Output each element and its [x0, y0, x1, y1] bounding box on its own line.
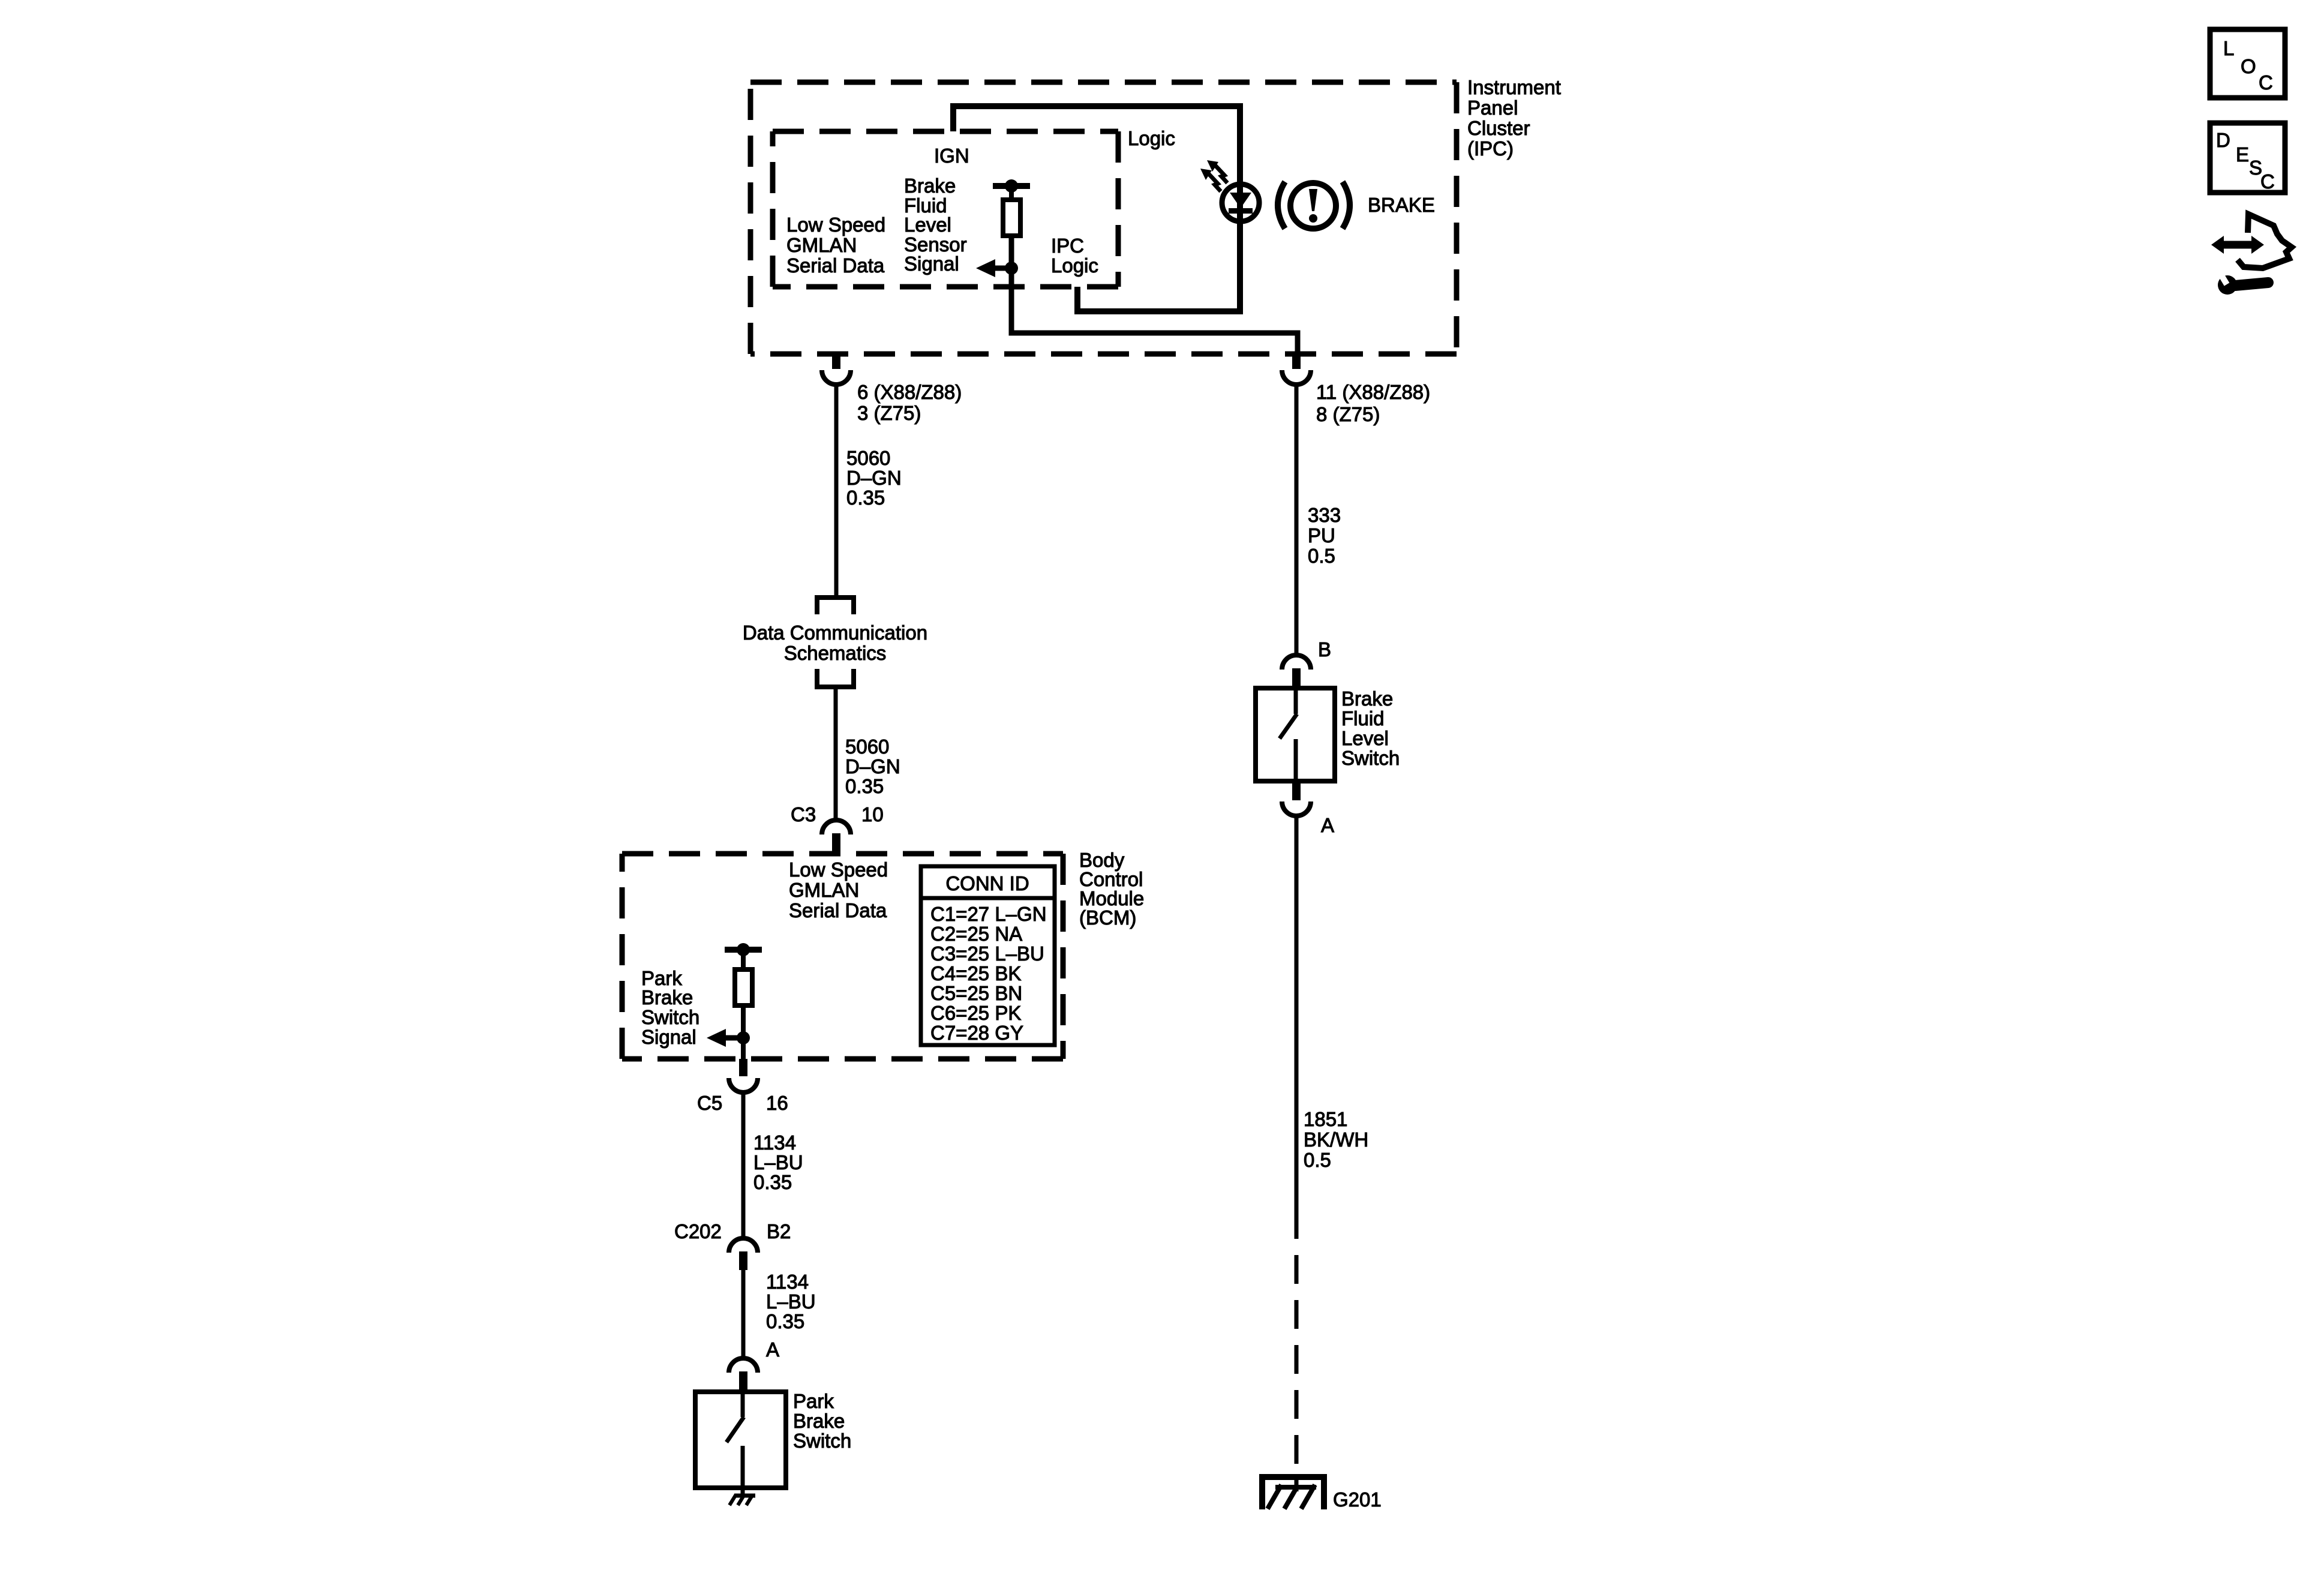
connector: brake fluid level switch pin B [1282, 655, 1311, 688]
label: Low Speed GMLAN Serial Data (IPC) [786, 214, 885, 277]
wire: park brake switch to ground [741, 1488, 745, 1497]
svg-text:L: L [2223, 37, 2234, 59]
label: Park Brake Switch Signal [641, 967, 699, 1048]
value label: 5060 D-GN 0.35 (upper) [846, 447, 902, 509]
svg-text:C1=27 L–GN: C1=27 L–GN [930, 903, 1047, 925]
svg-text:Brake: Brake [793, 1410, 845, 1432]
wire: circuit 1134 lower segment [741, 1270, 746, 1358]
svg-text:Data Communication: Data Communication [743, 622, 927, 644]
value label: 1134 L-BU 0.35 (lower) [766, 1271, 816, 1332]
svg-text:C4=25 BK: C4=25 BK [930, 962, 1021, 984]
node: park brake switch signal junction [737, 1031, 750, 1044]
svg-text:3 (Z75): 3 (Z75) [857, 402, 921, 424]
svg-text:BRAKE: BRAKE [1368, 194, 1435, 216]
svg-text:Signal: Signal [904, 253, 959, 275]
label: G201 [1333, 1488, 1382, 1511]
label: IPC Logic [1051, 235, 1098, 277]
icon text: D E S C [2216, 129, 2275, 193]
svg-text:G201: G201 [1333, 1488, 1382, 1511]
icon: LOC reference box [2210, 29, 2285, 98]
svg-text:1851: 1851 [1304, 1108, 1347, 1130]
svg-text:A: A [766, 1338, 779, 1361]
svg-text:1134: 1134 [753, 1131, 796, 1154]
value label: 1134 L-BU 0.35 (upper) [753, 1131, 803, 1193]
connector: IPC pin 11 (brake fluid level sensor signal) [1282, 355, 1311, 385]
svg-text:L–BU: L–BU [753, 1151, 803, 1173]
svg-text:6 (X88/Z88): 6 (X88/Z88) [857, 381, 962, 403]
label: Logic [1128, 127, 1175, 149]
svg-text:C2=25 NA: C2=25 NA [930, 923, 1022, 945]
svg-text:Level: Level [904, 214, 951, 236]
pin label: B (brake fluid level switch) [1318, 638, 1331, 661]
svg-text:Low Speed: Low Speed [789, 858, 888, 881]
svg-text:0.35: 0.35 [766, 1310, 804, 1332]
label: Body Control Module (BCM) [1079, 849, 1144, 929]
svg-text:Switch: Switch [1341, 747, 1400, 769]
connector: park brake switch pin A [729, 1358, 758, 1392]
ground: park brake switch chassis ground [729, 1494, 755, 1505]
switch S1 contacts and blade [726, 1392, 744, 1488]
svg-text:A: A [1321, 814, 1334, 836]
pin label: A (park brake switch) [766, 1338, 779, 1361]
svg-text:Brake: Brake [641, 986, 693, 1008]
pin label: C202 / B2 [674, 1220, 791, 1242]
wire: circuit 5060 upper segment [834, 385, 839, 595]
svg-text:C7=28 GY: C7=28 GY [930, 1022, 1023, 1044]
svg-text:0.5: 0.5 [1304, 1149, 1331, 1171]
LED D1: brake warning indicator [1222, 184, 1259, 221]
svg-text:333: 333 [1308, 504, 1341, 526]
off-page reference: Data Communication Schematics (bottom bracket) [817, 669, 854, 687]
connector: brake fluid level switch pin A [1282, 781, 1311, 816]
svg-text:Logic: Logic [1128, 127, 1175, 149]
svg-text:C: C [2260, 170, 2275, 193]
svg-text:D: D [2216, 129, 2230, 151]
svg-text:GMLAN: GMLAN [786, 234, 857, 256]
label: BRAKE [1368, 194, 1435, 216]
label: Low Speed GMLAN Serial Data (BCM) [789, 858, 888, 921]
wire: circuit 1134 upper segment [741, 1092, 746, 1238]
svg-text:BK/WH: BK/WH [1304, 1128, 1368, 1151]
pin label: C5 / 16 [697, 1092, 788, 1114]
LED light arrows [1200, 160, 1227, 191]
resistor R1: IPC pull-up [1003, 200, 1020, 236]
svg-text:10: 10 [861, 803, 884, 825]
svg-text:C5: C5 [697, 1092, 722, 1114]
svg-text:1134: 1134 [766, 1271, 809, 1293]
label: Instrument Panel Cluster (IPC) [1467, 76, 1561, 160]
pin label: 6 (X88/Z88) / 3 (Z75) [857, 381, 962, 424]
off-page reference: Data Communication Schematics (top bracket) [817, 598, 854, 614]
connector: C202 pin B2 [729, 1238, 758, 1270]
label: Data Communication Schematics [743, 622, 927, 664]
wire: IGN logic top loop to LED and back to IPC Logic [953, 106, 1240, 311]
svg-text:C6=25 PK: C6=25 PK [930, 1002, 1021, 1024]
svg-text:(BCM): (BCM) [1079, 906, 1136, 929]
svg-text:IPC: IPC [1051, 235, 1084, 257]
icon text: L O C [2223, 37, 2273, 94]
connector: BCM C5 pin 16 [729, 1059, 758, 1092]
svg-text:Logic: Logic [1051, 254, 1098, 277]
wire: circuit 1851 solid segment [1295, 816, 1299, 1210]
svg-text:Switch: Switch [641, 1006, 699, 1028]
svg-text:IGN: IGN [934, 145, 969, 167]
label: Brake Fluid Level Switch [1341, 688, 1400, 769]
arrow: signal into IPC logic (points left) [976, 259, 1011, 277]
pin label: A (brake fluid level switch) [1321, 814, 1334, 836]
node: BCM pull-up terminal bar with junction [725, 943, 762, 956]
svg-text:11 (X88/Z88): 11 (X88/Z88) [1316, 381, 1430, 403]
svg-text:PU: PU [1308, 524, 1335, 547]
svg-text:0.5: 0.5 [1308, 545, 1335, 567]
module box U2: Body Control Module (BCM) dashed outline [622, 854, 1063, 1059]
svg-text:B: B [1318, 638, 1331, 661]
svg-text:16: 16 [766, 1092, 788, 1114]
svg-text:5060: 5060 [846, 447, 890, 469]
svg-text:GMLAN: GMLAN [789, 879, 859, 901]
svg-text:Cluster: Cluster [1467, 117, 1530, 139]
svg-text:Serial Data: Serial Data [789, 899, 887, 921]
icon: wrench [2217, 271, 2268, 295]
icon: vehicle orientation symbol (car outline) [2238, 214, 2292, 268]
svg-text:Instrument: Instrument [1467, 76, 1561, 98]
svg-text:Serial Data: Serial Data [786, 254, 885, 277]
table text: CONN ID rows [930, 872, 1047, 1044]
wire: IGN bar to resistor R1 [1009, 186, 1014, 200]
value label: 5060 D-GN 0.35 (lower) [845, 736, 900, 797]
label: Park Brake Switch [793, 1390, 851, 1452]
svg-text:Park: Park [793, 1390, 834, 1412]
svg-text:B2: B2 [767, 1220, 791, 1242]
sub-box: IPC logic block (IGN / Logic) dashed outline [773, 131, 1118, 287]
pin label: 11 (X88/Z88) / 8 (Z75) [1316, 381, 1430, 425]
svg-text:CONN ID: CONN ID [945, 872, 1029, 894]
svg-text:Brake: Brake [1341, 688, 1393, 710]
label: IGN [934, 145, 969, 167]
connector: IPC pin 6 (serial data out) [822, 355, 851, 385]
node: IGN supply terminal bar with junction [993, 179, 1030, 193]
svg-text:Fluid: Fluid [1341, 707, 1385, 730]
wire: resistor R2 down through BCM edge [741, 1005, 746, 1059]
resistor R2: BCM pull-up [735, 969, 752, 1005]
label: Brake Fluid Level Sensor Signal [904, 175, 967, 275]
svg-text:C3=25 L–BU: C3=25 L–BU [930, 942, 1044, 965]
arrow: park brake switch signal into BCM logic (points left) [707, 1029, 743, 1047]
svg-text:Signal: Signal [641, 1026, 696, 1048]
svg-text:0.35: 0.35 [753, 1171, 792, 1193]
table: CONN ID [921, 866, 1055, 1045]
switch S1: Park Brake Switch box [695, 1392, 786, 1488]
svg-text:Switch: Switch [793, 1430, 851, 1452]
svg-text:Level: Level [1341, 727, 1389, 749]
switch S2: Brake Fluid Level Switch box [1256, 688, 1335, 781]
svg-text:Low Speed: Low Speed [786, 214, 885, 236]
svg-text:(IPC): (IPC) [1467, 137, 1514, 160]
wire: circuit 333 [1295, 385, 1299, 655]
svg-text:D–GN: D–GN [845, 755, 900, 778]
ground G201 symbol [1259, 1475, 1327, 1509]
value label: 333 PU 0.5 [1308, 504, 1341, 567]
svg-text:L–BU: L–BU [766, 1290, 816, 1313]
svg-text:Schematics: Schematics [784, 642, 887, 664]
svg-text:C202: C202 [674, 1220, 722, 1242]
icon: double-headed arrow [2211, 236, 2264, 254]
telltale: brake warning symbol ((!)) [1278, 182, 1350, 229]
svg-text:D–GN: D–GN [846, 467, 902, 489]
svg-text:O: O [2241, 55, 2256, 77]
pin label: C3 / 10 [791, 803, 884, 825]
svg-text:C5=25 BN: C5=25 BN [930, 982, 1022, 1004]
svg-text:5060: 5060 [845, 736, 889, 758]
svg-text:0.35: 0.35 [845, 775, 884, 797]
svg-text:C: C [2259, 71, 2273, 94]
wire: circuit 5060 lower segment [834, 687, 838, 819]
wire: bar to resistor R2 [741, 950, 746, 969]
svg-text:Brake: Brake [904, 175, 956, 197]
svg-text:Panel: Panel [1467, 97, 1518, 119]
value label: 1851 BK/WH 0.5 [1304, 1108, 1368, 1171]
svg-text:C3: C3 [791, 803, 816, 825]
connector: BCM C3 pin 10 [822, 820, 851, 855]
svg-text:E: E [2236, 143, 2249, 166]
svg-text:0.35: 0.35 [846, 487, 885, 509]
wire: resistor R1 to junction and over to pin 11 [1011, 236, 1298, 355]
svg-text:8 (Z75): 8 (Z75) [1316, 403, 1380, 425]
module box U1: Instrument Panel Cluster (IPC) dashed outline [750, 82, 1457, 354]
wire: circuit 1851 dashed continuation [1295, 1210, 1299, 1475]
node: brake fluid level sensor signal junction [1005, 262, 1018, 275]
icon: DESC reference box [2210, 123, 2285, 193]
switch S2 contacts and blade [1280, 688, 1297, 781]
